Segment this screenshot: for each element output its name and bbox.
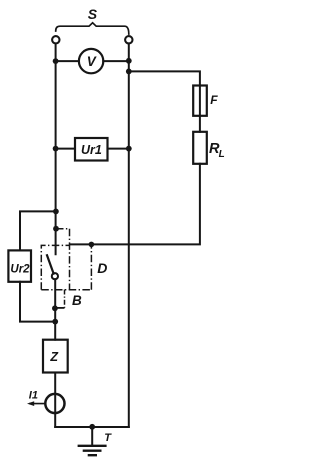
- wire: voltmeter to right rail: [103, 60, 129, 62]
- svg-text:L: L: [219, 149, 225, 160]
- wire: F to RL: [199, 116, 201, 132]
- wire: Ur1 to right rail: [108, 148, 129, 150]
- junction: Ur2 branch bottom: [52, 319, 58, 325]
- wire: RL down and left to release D: [70, 164, 200, 245]
- svg-text:D: D: [97, 260, 107, 276]
- wire: Z to current source: [54, 373, 56, 428]
- svg-text:F: F: [210, 93, 218, 107]
- breaker B boundary dash-dot box: [41, 244, 91, 289]
- fuse F element line: [199, 86, 201, 116]
- svg-text:Ur2: Ur2: [10, 264, 30, 276]
- junction: Ur2 branch top: [53, 209, 59, 215]
- switch S right terminal: [125, 36, 132, 43]
- ground T: [91, 427, 93, 445]
- relay Ur2: [8, 250, 31, 281]
- wire: right rail from S terminal down to bottom: [128, 43, 130, 427]
- impedance Z: [43, 340, 68, 373]
- switch S bracket: [56, 23, 129, 34]
- wire: below breaker contact: [54, 279, 56, 340]
- junction: node below breaker: [52, 305, 58, 311]
- breaker B blade: [47, 255, 54, 273]
- wire: bottom return to right rail: [55, 426, 129, 428]
- junction: Ur1 right tap: [126, 146, 132, 152]
- svg-text:V: V: [87, 54, 97, 69]
- junction: voltmeter left tap: [53, 58, 59, 64]
- current arrow I1: [30, 403, 45, 405]
- svg-text:Ur1: Ur1: [81, 143, 102, 157]
- wire: left rail to voltmeter: [56, 60, 79, 62]
- svg-text:Z: Z: [49, 350, 59, 364]
- voltmeter V: [79, 49, 103, 73]
- junction: F branch on right rail: [126, 69, 132, 75]
- mechanical link tail from B box to wire: [64, 290, 66, 308]
- relay Ur1: [75, 138, 108, 161]
- switch S left terminal: [52, 36, 59, 43]
- breaker B contact: [52, 273, 58, 279]
- mechanical link dash-dot to D: [56, 229, 70, 290]
- wire: left rail to Ur1: [56, 148, 75, 150]
- svg-text:T: T: [104, 432, 112, 444]
- svg-text:I1: I1: [29, 390, 38, 402]
- junction: ground tap: [89, 424, 95, 430]
- svg-text:S: S: [88, 6, 98, 22]
- current source I1: [45, 394, 64, 413]
- wire: branch to fuse F: [129, 71, 200, 85]
- svg-text:B: B: [72, 293, 82, 308]
- resistor RL: [193, 132, 207, 164]
- wire: left rail from S terminal down to breaker top: [55, 43, 57, 254]
- fuse F: [193, 86, 207, 116]
- junction: node at release D corner: [89, 242, 95, 248]
- junction: Ur1 left tap: [53, 146, 59, 152]
- junction: mechanical link tap on left rail: [53, 226, 59, 232]
- wire: branch to relay Ur2: [20, 211, 56, 250]
- junction: voltmeter right tap: [126, 58, 132, 64]
- wire: Ur2 bottom back to left rail: [20, 282, 56, 322]
